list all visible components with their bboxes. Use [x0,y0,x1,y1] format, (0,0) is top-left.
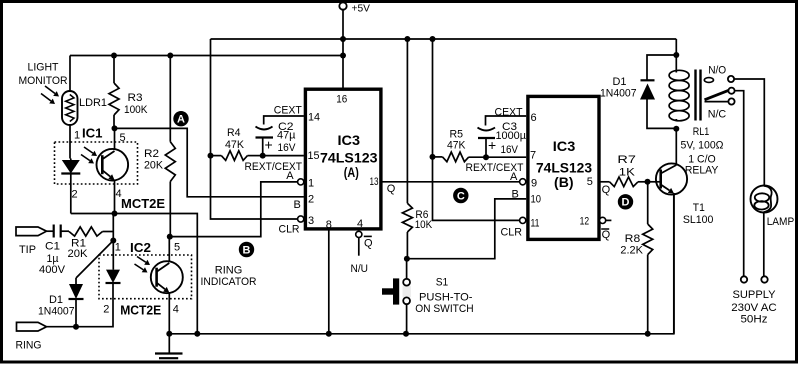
IC3A pin 3 [298,216,304,222]
wire LDR top [69,56,71,92]
svg-text:R8: R8 [625,233,641,245]
svg-text:1N4007: 1N4007 [600,88,637,100]
svg-text:9: 9 [531,177,537,189]
wire diode branch bottom [647,100,676,129]
svg-text:15: 15 [308,150,320,162]
svg-text:+: + [265,137,273,153]
svg-text:20K: 20K [144,160,164,172]
svg-text:10K: 10K [415,219,433,231]
ground symbol [168,334,170,354]
node C marker [453,188,468,203]
svg-text:LDR1: LDR1 [79,97,107,109]
svg-text:A: A [286,170,294,182]
opto box IC2 [99,255,192,299]
svg-text:CEXT: CEXT [495,107,523,119]
diode D1 telephone [75,278,77,284]
svg-text:4: 4 [173,303,179,315]
svg-text:Q: Q [602,184,611,196]
relay pole blade [704,78,713,83]
svg-text:1: 1 [74,130,80,142]
wire TIP to C1 [47,230,54,232]
svg-text:CEXT: CEXT [274,105,302,117]
svg-text:N/U: N/U [351,263,369,275]
junction R5 left [430,154,436,160]
svg-text:CLR: CLR [501,227,523,239]
svg-text:13: 13 [370,176,379,188]
lamp [751,186,778,213]
wire +5V rail lower [70,55,343,57]
wire +5V vertical to pin 16 [342,9,344,89]
svg-text:8: 8 [326,219,332,231]
svg-text:RING: RING [215,265,243,277]
connector TIP [16,227,47,236]
svg-text:R3: R3 [128,92,143,104]
supply terminals [741,276,747,282]
svg-text:PUSH-TO-: PUSH-TO- [419,292,473,304]
svg-text:230V AC: 230V AC [731,302,777,314]
op-to box IC1 [55,142,138,184]
connector RING [17,322,47,331]
resistor R1 [69,227,103,236]
svg-text:IC3: IC3 [553,139,576,154]
junction coil bottom [673,126,679,132]
svg-text:50Hz: 50Hz [741,313,768,325]
svg-text:47K: 47K [225,139,245,151]
svg-text:D1: D1 [49,294,63,306]
junction rail CLR-B line [430,36,436,42]
svg-text:5: 5 [120,132,126,144]
IC2 LED [106,270,120,283]
wire T1 collector [675,129,677,165]
svg-text:5: 5 [174,242,180,254]
wire lamp to supply [763,213,765,277]
junction C2 R4 [260,153,266,159]
svg-text:SUPPLY: SUPPLY [733,289,777,301]
svg-text:16: 16 [336,93,347,105]
junction IC2 emitter ground [166,331,172,337]
node A marker [173,111,188,126]
svg-text:R4: R4 [227,127,241,139]
svg-text:RELAY: RELAY [685,165,719,177]
svg-text:47µ: 47µ [277,130,296,142]
svg-text:IC3: IC3 [338,133,361,148]
wire diagonal to D1 [76,241,113,279]
wire RING to IC2 pin 2 [47,284,114,327]
junction R8 ground [645,331,651,337]
wire base [648,181,660,183]
switch S1 [406,259,408,279]
svg-text:MCT2E: MCT2E [120,303,161,318]
svg-text:D: D [622,197,630,209]
svg-text:2: 2 [103,303,109,315]
wire net B to pin 1 [170,182,297,237]
svg-text:LIGHT: LIGHT [28,62,59,74]
svg-text:RL1: RL1 [693,126,710,138]
svg-text:74LS123: 74LS123 [536,160,592,175]
junction +5V rail/pin16 [340,36,346,42]
svg-text:SL100: SL100 [683,214,714,226]
svg-text:B: B [512,188,519,200]
svg-text:S1: S1 [436,276,449,288]
svg-text:CLR: CLR [279,224,300,236]
wire IC2 emitter [168,292,170,334]
diode D1 relay [641,79,655,81]
wire IC1 emitter net to ground line [71,214,198,334]
svg-text:C: C [457,190,465,202]
svg-text:Q: Q [387,183,396,195]
wire +5V to R4/CLR(A) vertical [211,39,298,219]
capacitor C3 [478,128,496,131]
wire net A to pin 2 [115,128,304,196]
svg-text:R5: R5 [450,128,464,140]
svg-text:B: B [294,199,301,211]
svg-text:2.2K: 2.2K [620,245,643,257]
svg-text:LAMP: LAMP [767,216,795,228]
svg-text:MONITOR: MONITOR [19,75,68,87]
svg-text:ON SWITCH: ON SWITCH [415,303,474,315]
op-amp IC3A box [305,89,381,229]
svg-text:20K: 20K [68,248,89,260]
node B marker [239,242,254,257]
junction R3 bottom / IC1 collector [112,125,118,131]
IC1 LED [70,159,72,161]
svg-text:1N4007: 1N4007 [38,306,75,318]
svg-text:1 C/O: 1 C/O [688,154,716,166]
svg-text:74LS123: 74LS123 [320,150,378,165]
LDR1 body [62,91,78,125]
IC1 phototransistor [97,149,129,181]
wire Q(B) to R7 [599,181,609,183]
svg-text:R2: R2 [144,148,159,160]
svg-text:+: + [488,137,496,153]
junction T1 base [645,179,651,185]
wire +5V to R5/CLR(B) vertical [433,39,520,220]
relay N/O contact [728,76,734,82]
junction R6 bottom [404,256,410,262]
capacitor C1 [53,225,55,238]
IC2 light arrows [137,257,146,263]
svg-text:TIP: TIP [19,244,36,256]
svg-text:1000µ: 1000µ [496,130,527,142]
wire C1 to R1 [61,230,69,232]
svg-text:C1: C1 [45,241,60,253]
svg-text:N/C: N/C [708,109,727,121]
svg-text:11: 11 [531,218,540,230]
IC3A pin 14 wire and C2 [264,116,304,125]
svg-text:MCT2E: MCT2E [121,196,165,211]
svg-text:4: 4 [357,218,363,230]
svg-text:1K: 1K [619,166,636,178]
resistor R8 [647,182,649,224]
svg-text:INDICATOR: INDICATOR [201,276,257,288]
wire IC1 emitter [114,180,116,214]
svg-text:7: 7 [530,150,536,162]
resistor R6 [406,39,408,203]
svg-text:5: 5 [587,176,593,188]
wire diode branch top [647,55,676,80]
svg-text:N/O: N/O [708,64,726,76]
junction emitter-net ground [194,331,200,337]
svg-text:400V: 400V [39,264,66,276]
svg-text:100K: 100K [124,104,148,116]
svg-text:10: 10 [531,194,542,206]
svg-text:14: 14 [308,112,320,124]
svg-text:1: 1 [308,177,314,189]
IC1 light arrows [84,147,93,153]
wire N/O to lamp [734,79,764,186]
svg-text:5V, 100Ω: 5V, 100Ω [681,140,724,152]
relay pole contact [728,88,734,94]
IC3B pin 6 wire and C3 [486,116,527,126]
ground rail [169,194,674,334]
junction R3 top [111,53,117,59]
wire LDR bottom to IC1 LED [69,125,71,159]
junction R4 left [208,153,214,159]
relay N/C contact [705,101,729,103]
svg-text:1: 1 [115,242,121,254]
svg-text:2: 2 [72,189,78,201]
junction rail R6 [404,36,410,42]
svg-text:16V: 16V [278,142,297,154]
wire +5V rail upper [211,38,677,40]
resistor R7 [610,177,639,187]
resistor R2 [169,56,171,142]
svg-text:B: B [243,244,251,256]
wire IC2 collector [168,237,170,262]
junction R1 D1 node [110,238,116,244]
wire pole to supply [735,91,744,277]
wire S1 net to pin 10 [407,199,526,259]
LDR1 light arrows [45,86,55,94]
svg-text:47K: 47K [447,140,466,152]
wire T1 emitter [673,193,675,334]
relay coil RL1 [669,70,689,80]
svg-text:IC1: IC1 [82,126,103,141]
resistor R5 [433,156,443,158]
svg-text:6: 6 [531,112,537,124]
junction emitter/cathode [112,211,118,217]
svg-text:A: A [177,114,185,126]
junction C3 R5 [483,154,489,160]
wire down to R1/D1/IC2 pin1 [112,214,114,270]
svg-text:(B): (B) [554,175,574,190]
node D marker [618,194,633,209]
relay core [694,70,696,121]
junction relay/diode top [673,52,679,58]
svg-text:12: 12 [580,215,590,227]
svg-text:R7: R7 [617,154,636,166]
svg-text:(A): (A) [344,165,359,180]
capacitor C2 [256,127,273,130]
+5V terminal [339,2,346,9]
svg-text:RING: RING [16,340,42,352]
svg-text:16V: 16V [501,144,519,156]
wire +5V to relay [675,39,677,71]
svg-text:Q: Q [364,238,373,250]
svg-text:T1: T1 [693,202,705,214]
svg-text:IC2: IC2 [130,240,151,255]
junction D1 ring wire [73,324,79,330]
wire Q(A) to pin 9 [382,181,519,183]
svg-text:D1: D1 [613,76,627,88]
junction R2 top [167,53,173,59]
resistor R4 [211,155,222,157]
svg-text:Q: Q [602,229,611,241]
junction net B [167,234,173,240]
transistor T1 [656,163,687,194]
svg-text:2: 2 [308,194,314,206]
wire IC1 collector [114,128,116,150]
op-amp IC3B box [528,96,599,239]
IC2 phototransistor [151,261,183,293]
svg-text:3: 3 [308,215,314,227]
resistor R3 [113,56,115,84]
IC3B pin 11 [520,217,526,223]
svg-text:+5V: +5V [352,3,371,15]
svg-text:A: A [510,171,518,183]
